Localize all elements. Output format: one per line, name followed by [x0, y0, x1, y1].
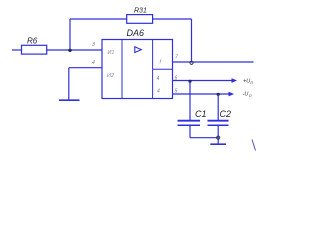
- svg-text:+U: +U: [243, 79, 250, 85]
- svg-text:п: п: [251, 80, 254, 85]
- wire C2 top lead: [217, 94, 219, 120]
- wire R31 to feedback right vertical: [153, 18, 192, 20]
- svg-text:C1: C1: [195, 109, 207, 119]
- capacitor C1 plates: [178, 120, 201, 122]
- svg-text:И1: И1: [108, 50, 115, 56]
- ground bar left: [59, 99, 80, 101]
- wire feedback right vertical: [191, 19, 193, 62]
- svg-text:4: 4: [157, 76, 160, 82]
- wire C1 top lead: [189, 81, 191, 121]
- wire inverting input И2: [69, 67, 102, 69]
- wire top to R31: [70, 18, 127, 20]
- node C1 tap junction: [188, 80, 191, 83]
- op-amp DA6 right column cell divider 1: [153, 68, 173, 70]
- node bottom junction: [217, 136, 220, 139]
- node C2 tap junction: [217, 93, 220, 96]
- op-amp DA6 inner divider left: [121, 40, 123, 99]
- wire supply line -U: [173, 93, 230, 95]
- op-amp triangle symbol: [135, 47, 142, 53]
- stray diagonal mark: [252, 140, 256, 151]
- wire ground vertical for И2: [68, 68, 70, 100]
- wire feedback left vertical: [69, 19, 71, 50]
- svg-text:R31: R31: [134, 8, 147, 15]
- svg-text:DA6: DA6: [127, 28, 145, 38]
- svg-text:п: п: [249, 93, 252, 98]
- svg-text:И2: И2: [107, 73, 114, 79]
- wire supply line +U: [173, 80, 233, 82]
- resistor R31: [127, 15, 153, 24]
- svg-text:7: 7: [175, 55, 178, 61]
- wire R6 to op-amp input pin 3: [47, 49, 102, 51]
- resistor R6: [22, 45, 47, 54]
- op-amp U1 DA6 body: [102, 40, 173, 99]
- wire output pin 7 line: [173, 61, 254, 63]
- svg-text:-U: -U: [243, 91, 249, 97]
- svg-text:R6: R6: [27, 37, 38, 46]
- wire bottom connector C1-C2: [190, 137, 218, 139]
- node A junction on input wire: [68, 49, 71, 52]
- svg-text:4: 4: [92, 60, 95, 66]
- capacitor C2 plates: [208, 120, 229, 122]
- wire C1 bottom lead: [189, 126, 191, 138]
- svg-text:3: 3: [92, 42, 95, 48]
- arrow on -U line: [229, 92, 233, 95]
- wire input to R6: [12, 49, 22, 51]
- svg-text:4: 4: [157, 89, 160, 95]
- op-amp DA6 inner divider right: [152, 40, 154, 99]
- arrow on +U line: [232, 79, 236, 82]
- ground bar right: [210, 143, 226, 145]
- wire C2 bottom lead to ground: [217, 126, 219, 144]
- svg-text:C2: C2: [220, 109, 232, 119]
- node B junction output/feedback: [190, 61, 193, 64]
